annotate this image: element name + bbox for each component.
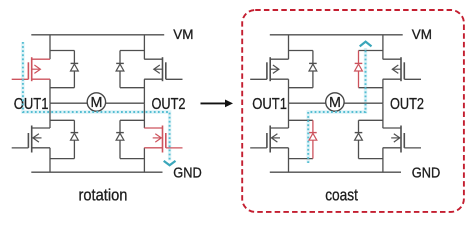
wire motor to OUT2 (coast) (344, 102, 383, 104)
wire low-side right FET to GND (rotation) (143, 148, 145, 172)
wire low-side right FET to GND (coast) (382, 148, 384, 172)
diode body top-left (coast) (309, 51, 317, 88)
motor M (coast) (326, 93, 344, 111)
transistor top-right high-side (coast) (383, 57, 421, 81)
wire VM to high-side left FET (coast) (288, 35, 290, 59)
transistor top-left high-side (ON, red) (12, 57, 50, 81)
diode body bottom-left (71, 120, 79, 158)
diode body bottom-left conducting (coast, red) (309, 120, 317, 158)
transistor top-right high-side (144, 57, 182, 81)
wire top-left diode loop (coast) (289, 50, 313, 52)
wire OUT2 to low-side right FET (rotation) (143, 103, 145, 128)
wire top-right diode loop (coast) (359, 50, 383, 52)
svg-text:VM: VM (412, 27, 432, 42)
diode body top-right (116, 51, 124, 88)
wire VM to high-side right FET (coast) (382, 35, 384, 59)
wire bottom-left diode loop (coast) (289, 119, 313, 121)
transistor bottom-right low-side (ON, red) (144, 126, 182, 153)
diode body bottom-right (coast) (355, 120, 363, 158)
transistor bottom-left low-side (12, 126, 50, 153)
transistor bottom-right low-side (coast) (383, 126, 421, 153)
wire bottom-right diode loop (rotation) (120, 119, 144, 121)
svg-text:GND: GND (173, 165, 202, 181)
wire OUT2 to low-side right FET (coast) (382, 103, 384, 128)
diode body top-right conducting (coast, red) (355, 51, 363, 88)
diode body top-left (71, 51, 79, 88)
wire top-left diode loop (rotation) (50, 50, 74, 52)
wire OUT1 to low-side left FET (rotation) (49, 103, 51, 128)
wire OUT1 to motor (coast) (289, 102, 326, 104)
svg-text:VM: VM (173, 27, 193, 42)
svg-text:OUT2: OUT2 (152, 96, 186, 113)
wire VM to high-side left FET (rotation) (49, 35, 51, 59)
svg-text:rotation: rotation (79, 186, 128, 205)
current path arrow down at GND (rotation) (164, 161, 176, 165)
svg-text:OUT1: OUT1 (252, 96, 287, 113)
wire VM rail (rotation) (31, 34, 164, 36)
svg-text:OUT1: OUT1 (14, 96, 49, 113)
motor M (rotation) (87, 93, 105, 111)
wire right FET source to OUT2 (rotation) (143, 79, 145, 103)
current path dotted (coast) (308, 48, 365, 163)
transistor top-left high-side (coast) (250, 57, 288, 81)
wire OUT1 to low-side left FET (coast) (288, 103, 290, 128)
wire top-right diode loop (rotation) (120, 50, 144, 52)
wire OUT1 to motor (rotation) (50, 102, 87, 104)
coast dashed border box (242, 10, 464, 212)
wire bottom-left diode loop (rotation) (50, 119, 74, 121)
current path halo (coast) (308, 48, 365, 163)
current path halo (rotation) (23, 42, 170, 161)
svg-text:M: M (90, 95, 102, 111)
transistor bottom-left low-side (coast) (250, 126, 288, 153)
current path arrow up at VM (coast) (360, 42, 372, 47)
svg-text:GND: GND (412, 165, 441, 181)
wire VM to high-side right FET (rotation) (143, 35, 145, 59)
svg-text:OUT2: OUT2 (390, 96, 424, 113)
wire left FET source to OUT1 (rotation) (49, 79, 51, 103)
wire GND rail (rotation) (31, 171, 162, 173)
wire low-side left FET to GND (coast) (288, 148, 290, 172)
svg-text:coast: coast (325, 186, 358, 205)
wire low-side left FET to GND (rotation) (49, 148, 51, 172)
svg-text:M: M (329, 95, 341, 111)
wire VM rail (coast) (270, 34, 403, 36)
wire motor to OUT2 (rotation) (106, 102, 145, 104)
wire left FET source to OUT1 (coast) (288, 79, 290, 103)
arrow rotation-to-coast (201, 102, 227, 104)
wire right FET source to OUT2 (coast) (382, 79, 384, 103)
current path dotted (rotation) (23, 42, 170, 161)
diode body bottom-right (116, 120, 124, 158)
wire bottom-right diode loop (coast) (359, 119, 383, 121)
wire GND rail (coast) (270, 171, 401, 173)
